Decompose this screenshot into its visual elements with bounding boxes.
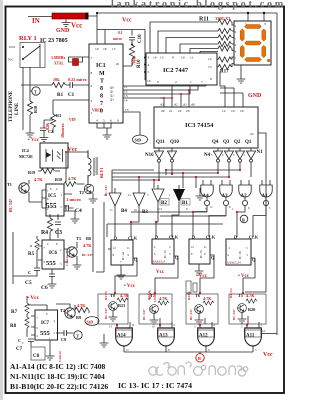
capacitor C9: [64, 330, 66, 336]
svg-text:R8: R8: [10, 324, 17, 329]
svg-text:Q2: Q2: [234, 140, 241, 145]
watermark bottom (sinhala): [149, 362, 248, 376]
IC2 7447: [146, 53, 217, 85]
AND gate A14: [116, 328, 133, 346]
svg-text:IC7: IC7: [41, 321, 50, 326]
svg-text:C7: C7: [16, 347, 23, 352]
svg-text:T8: T8: [110, 293, 115, 298]
svg-text:14: 14: [153, 56, 157, 60]
inverter N4: [213, 151, 222, 162]
svg-text:BC 547: BC 547: [189, 309, 193, 320]
svg-text:N/O: N/O: [9, 45, 16, 49]
ground (ff IC14): [120, 265, 122, 272]
svg-text:3: 3: [226, 150, 228, 154]
svg-text:MC72E: MC72E: [19, 154, 33, 159]
svg-text:T: T: [76, 334, 79, 339]
svg-text:CLK: CLK: [249, 235, 259, 240]
svg-text:20: 20: [161, 109, 165, 113]
wire telephone line left: [21, 67, 52, 130]
svg-text:IC 15: IC 15: [199, 250, 203, 258]
svg-text:T5: T5: [238, 293, 243, 298]
AND gate A12: [198, 328, 215, 346]
svg-text:A3: A3: [159, 103, 164, 107]
svg-text:10: 10: [95, 47, 99, 51]
page border frame: [0, 0, 3, 400]
display digit 8 segments: [240, 25, 270, 62]
inverter N2: [235, 151, 244, 162]
components under IC5: Ra Ca: [47, 218, 52, 232]
svg-text:B4: B4: [121, 209, 127, 214]
red junction dots bus: [153, 179, 155, 181]
wire IC3 pin24 to rail: [245, 133, 266, 292]
svg-text:N/C: N/C: [8, 58, 15, 62]
svg-text:14: 14: [124, 99, 128, 103]
svg-text:3.58MHz: 3.58MHz: [51, 56, 65, 60]
svg-text:R23: R23: [118, 303, 125, 308]
AND gate A3: [220, 185, 232, 197]
svg-text:B2: B2: [161, 201, 167, 206]
svg-text:A13: A13: [159, 334, 168, 339]
svg-text:C4: C4: [75, 208, 82, 214]
svg-text:4.7K: 4.7K: [34, 177, 43, 182]
svg-text:B1: B1: [182, 201, 188, 206]
svg-text:4.7K: 4.7K: [203, 296, 212, 301]
svg-text:B1-B10(IC 20-IC 22):IC 74126: B1-B10(IC 20-IC 22):IC 74126: [10, 382, 108, 391]
svg-text:BC 547: BC 547: [142, 309, 146, 320]
capacitor C8 box: [31, 347, 45, 360]
driver cell T6: [186, 294, 218, 324]
junction dots IC2 left: [144, 57, 146, 59]
svg-text:2: 2: [91, 84, 93, 88]
svg-text:10k: 10k: [53, 77, 60, 82]
svg-text:16: 16: [116, 62, 120, 66]
svg-text:N1-N11(IC 18-IC 19):IC 7404: N1-N11(IC 18-IC 19):IC 7404: [10, 372, 105, 381]
svg-text:9: 9: [172, 56, 174, 60]
svg-text:R18: R18: [33, 106, 38, 113]
svg-text:15: 15: [125, 108, 129, 112]
svg-text:18: 18: [240, 109, 244, 113]
svg-text:T7: T7: [150, 293, 155, 298]
svg-text:0.22 micro: 0.22 micro: [68, 77, 87, 82]
svg-text:C6: C6: [41, 285, 48, 291]
svg-text:1 micro: 1 micro: [65, 255, 69, 266]
svg-text:R6: R6: [86, 236, 91, 241]
svg-text:StD: StD: [135, 138, 142, 143]
svg-text:8: 8: [100, 86, 103, 92]
svg-text:21: 21: [169, 109, 173, 113]
svg-text:TELEPHONE: TELEPHONE: [9, 90, 14, 122]
IC6 555: [42, 240, 64, 269]
svg-text:C5: C5: [25, 280, 32, 286]
capacitor C2: [40, 128, 46, 130]
flip-flop IC14: [111, 240, 133, 265]
svg-text:CLK: CLK: [206, 235, 216, 240]
svg-text:D: D: [234, 235, 237, 240]
svg-text:5,4,9,CL,14: 5,4,9,CL,14: [227, 262, 241, 265]
capacitor C1: [70, 82, 72, 88]
svg-text:7: 7: [201, 80, 203, 84]
svg-text:330E X7: 330E X7: [215, 16, 230, 21]
svg-text:7: 7: [91, 56, 93, 60]
svg-text:C9: C9: [61, 337, 66, 342]
svg-text:B: B: [198, 356, 201, 361]
svg-text:RLY2: RLY2: [187, 291, 191, 300]
svg-text:CLK: CLK: [128, 236, 138, 241]
svg-text:D: D: [155, 235, 158, 240]
node T circle (bottom): [74, 331, 82, 339]
svg-text:16: 16: [147, 79, 151, 83]
inverter N15: [167, 151, 176, 162]
svg-text:T: T: [34, 90, 37, 95]
svg-text:BC 547: BC 547: [104, 308, 108, 319]
ground (gate row): [199, 188, 201, 193]
IC5 555: [46, 184, 64, 216]
node B circle: [240, 215, 248, 223]
svg-text:• Vcc: • Vcc: [27, 295, 40, 301]
buffer B3: [133, 188, 145, 210]
resistor R3 82K: [50, 114, 55, 128]
staircase wires IC2 pins to resistors: [150, 22, 218, 53]
svg-text:BC 547: BC 547: [104, 185, 108, 196]
capacitor C6: [49, 274, 55, 276]
svg-text:Vcc: Vcc: [71, 22, 82, 30]
svg-text:4: 4: [215, 150, 217, 154]
svg-text:C1: C1: [68, 93, 75, 98]
svg-text:IN: IN: [32, 17, 40, 25]
svg-text:555: 555: [46, 260, 57, 267]
resistor R18 (line): [27, 101, 32, 115]
svg-text:11: 11: [190, 56, 194, 60]
svg-text:R5: R5: [28, 252, 35, 257]
svg-text:R7: R7: [11, 310, 18, 315]
svg-text:T3: T3: [76, 236, 81, 241]
svg-text:4: 4: [96, 119, 98, 123]
svg-text:Vcc: Vcc: [263, 352, 273, 358]
svg-text:IC 16: IC 16: [238, 251, 242, 259]
wires display/R17 to IC3 top: [220, 72, 243, 108]
svg-text:R4: R4: [41, 230, 48, 236]
svg-text:4.7K: 4.7K: [83, 243, 92, 248]
right Vcc rail: [276, 13, 278, 335]
horizontal bus rows: [112, 170, 240, 180]
wire regulator out to Vcc rail: [88, 13, 277, 44]
svg-text:8: 8: [100, 94, 103, 100]
svg-text:22: 22: [178, 109, 182, 113]
wires ff row to drivers: [115, 255, 255, 292]
svg-text:VIN: VIN: [69, 118, 76, 122]
svg-text:12: 12: [222, 109, 226, 113]
flip-flop IC13: [152, 239, 174, 264]
svg-text:6: 6: [157, 80, 159, 84]
ground (ff2): [198, 264, 200, 268]
resistor R10: [129, 45, 134, 59]
IC1 MT8870: [89, 44, 123, 123]
ground (IC6): [48, 281, 57, 288]
svg-text:A11: A11: [246, 334, 255, 339]
ground (IC1 bottom): [97, 123, 111, 132]
AND gate A4: [201, 185, 213, 197]
svg-text:24: 24: [250, 132, 254, 136]
svg-text:4.7K: 4.7K: [120, 293, 129, 298]
svg-text:IC1: IC1: [96, 63, 106, 69]
svg-text:T6: T6: [195, 293, 200, 298]
svg-text:IC 13- IC 17 : IC 7474: IC 13- IC 17 : IC 7474: [118, 381, 192, 390]
svg-text:5: 5: [103, 119, 105, 123]
svg-text:CLK: CLK: [169, 235, 179, 240]
AND gate A1: [260, 185, 272, 197]
svg-text:Vcc: Vcc: [156, 270, 165, 275]
svg-text:7: 7: [100, 101, 103, 107]
svg-text:8: 8: [91, 71, 93, 75]
svg-text:T2: T2: [79, 190, 84, 195]
svg-text:5,4,9,CL,4: 5,4,9,CL,4: [153, 261, 166, 264]
svg-text:IC5: IC5: [48, 194, 57, 199]
svg-text:B3: B3: [142, 210, 148, 215]
bottom bus: [124, 351, 253, 353]
svg-text:• Vcc: • Vcc: [28, 138, 40, 143]
svg-text:0.1: 0.1: [118, 31, 123, 35]
svg-text:C: C: [18, 338, 21, 343]
svg-text:StD: StD: [87, 320, 94, 325]
wire 0.1uF box: [105, 30, 145, 58]
AND gate A11: [245, 328, 262, 346]
optocoupler IC4 MC72E: [40, 143, 68, 168]
svg-text:GND: GND: [248, 93, 262, 99]
ground (IC7): [49, 340, 51, 354]
relay RLY1 contacts: [20, 43, 45, 68]
svg-text:A1-A14 (IC 8-IC 12) :IC 7408: A1-A14 (IC 8-IC 12) :IC 7408: [10, 362, 105, 371]
buffer B1: [173, 189, 185, 202]
wire IN lead: [28, 16, 52, 18]
relay RLY1 coil: [88, 150, 94, 182]
svg-text:N1: N1: [257, 150, 264, 155]
buffer B2: [152, 185, 164, 210]
driver cell T5/R20: [229, 294, 266, 324]
svg-text:XTAL: XTAL: [54, 62, 64, 66]
svg-text:R3: R3: [56, 113, 61, 118]
svg-text:Q10: Q10: [170, 140, 179, 145]
bus IC1 Q outputs to IC2/IC3: [123, 85, 206, 98]
junction dot: [96, 12, 98, 14]
svg-text:IC 23 7805: IC 23 7805: [40, 38, 68, 44]
svg-text:Q11: Q11: [156, 140, 165, 145]
svg-text:M: M: [99, 71, 105, 77]
svg-text:R18: R18: [55, 177, 62, 182]
svg-text:Q3: Q3: [110, 98, 114, 102]
svg-text:700K: 700K: [133, 57, 137, 65]
svg-text:555: 555: [46, 202, 57, 210]
svg-text:RLY 1: RLY 1: [19, 35, 37, 42]
svg-text:C2: C2: [48, 129, 53, 134]
svg-text:2: 2: [175, 80, 177, 84]
ground (A14): [103, 334, 105, 340]
svg-text:555: 555: [40, 330, 51, 337]
driver cell T8/R23: [98, 294, 128, 324]
svg-text:R9: R9: [76, 315, 81, 320]
svg-text:Q3: Q3: [223, 140, 230, 145]
svg-text:BC 547: BC 547: [8, 199, 13, 212]
svg-text:R19: R19: [28, 170, 35, 175]
ground (regulator): [62, 20, 71, 27]
node StD oval (bottom): [85, 317, 99, 326]
svg-text:4: 4: [148, 63, 150, 67]
regulator IC23 7805 body: [52, 13, 88, 19]
svg-text:A4: A4: [203, 194, 210, 199]
crystal X1: [73, 59, 79, 66]
svg-text:R10: R10: [137, 59, 142, 68]
driver cell T7: [139, 294, 172, 324]
ground (tel line): [26, 130, 35, 137]
svg-text:A2: A2: [173, 103, 178, 107]
svg-text:IC3 74154: IC3 74154: [185, 122, 214, 129]
svg-text:Vcc: Vcc: [122, 18, 132, 24]
svg-text:VREF: VREF: [92, 109, 103, 113]
svg-text:6: 6: [110, 119, 112, 123]
svg-text:5: 5: [148, 70, 150, 74]
buffer B4: [109, 188, 121, 210]
inverter N3: [224, 151, 233, 162]
svg-text:IC4: IC4: [22, 148, 30, 153]
svg-text:f: f: [235, 56, 236, 60]
svg-text:A1: A1: [182, 103, 187, 107]
wires inverter outputs to bus: [159, 162, 251, 180]
flip-flop IC15: [189, 239, 210, 264]
svg-text:11: 11: [124, 85, 128, 89]
svg-text:23: 23: [186, 109, 190, 113]
svg-text:• Vcc: • Vcc: [124, 284, 136, 289]
AND gate A13: [158, 328, 175, 346]
7-segment display: [234, 21, 271, 65]
display top pins: [248, 13, 264, 21]
resistor bank a-g: [218, 19, 232, 24]
capacitor C7: [28, 339, 34, 341]
svg-text:Q1: Q1: [245, 140, 252, 145]
svg-text:GND: GND: [56, 28, 70, 34]
svg-text:1: 1: [190, 80, 192, 84]
svg-text:R17: R17: [220, 70, 229, 75]
transistor T1: [19, 183, 29, 193]
svg-text:IC 14: IC 14: [121, 252, 125, 260]
svg-text:3: 3: [148, 56, 150, 60]
capacitor C10: [129, 38, 135, 40]
ground (display): [240, 65, 242, 76]
ground (C2): [40, 135, 49, 142]
wire IC1 pin15 to StD: [123, 112, 140, 135]
svg-text:4.7K: 4.7K: [68, 176, 77, 181]
svg-text:13: 13: [208, 65, 212, 69]
svg-text:R11: R11: [199, 17, 209, 23]
svg-text:A14: A14: [117, 334, 126, 339]
svg-text:10: 10: [181, 56, 185, 60]
node T circle: [32, 87, 40, 95]
svg-text:N4: N4: [204, 153, 211, 158]
svg-text:A12: A12: [199, 334, 208, 339]
svg-text:BC 547: BC 547: [82, 253, 93, 257]
IC7 555: [35, 310, 58, 340]
svg-text:LINE: LINE: [15, 102, 20, 115]
svg-text:T1: T1: [7, 182, 12, 187]
flip-flop IC16: [226, 239, 251, 265]
node B circle (bottom): [199, 352, 201, 354]
svg-text:18: 18: [103, 47, 107, 51]
svg-text:1: 1: [248, 150, 250, 154]
svg-text:C8: C8: [33, 354, 40, 359]
svg-text:D: D: [192, 235, 195, 240]
AND gate A2: [239, 185, 251, 197]
svg-text:C10: C10: [138, 34, 143, 43]
transistor T2: [84, 184, 94, 194]
inverter N1: [246, 151, 255, 162]
svg-text:4.7K: 4.7K: [159, 296, 168, 301]
svg-text:T: T: [100, 79, 104, 85]
svg-text:9: 9: [117, 119, 119, 123]
node StD oval: [133, 135, 148, 144]
inverter N16: [154, 151, 163, 162]
svg-text:17: 17: [112, 47, 116, 51]
svg-text:12: 12: [208, 57, 212, 61]
svg-text:2: 2: [237, 150, 239, 154]
svg-text:19: 19: [231, 109, 235, 113]
svg-text:C: C: [22, 342, 24, 345]
svg-text:A1: A1: [262, 194, 269, 199]
svg-text:8: 8: [210, 77, 212, 81]
svg-text:Q4: Q4: [212, 140, 219, 145]
svg-text:3: 3: [91, 99, 93, 103]
svg-text:IC6: IC6: [49, 251, 58, 256]
svg-text:A3: A3: [222, 194, 229, 199]
svg-text:lankatronic.blogspot.com: lankatronic.blogspot.com: [111, 0, 286, 10]
svg-text:13: 13: [124, 94, 128, 98]
svg-text:1 micro: 1 micro: [66, 197, 82, 202]
svg-text:N16: N16: [145, 153, 154, 158]
svg-text:C3: C3: [55, 230, 62, 236]
resistor R1: [52, 82, 66, 87]
ground (IC5 right): [64, 211, 75, 216]
svg-text:4.7K: 4.7K: [246, 293, 255, 298]
svg-text:RL,V2: RL,V2: [229, 288, 233, 298]
svg-text:BC 547: BC 547: [232, 309, 236, 320]
svg-text:10micro: 10micro: [60, 123, 65, 138]
svg-text:R20: R20: [248, 307, 255, 312]
svg-text:12: 12: [124, 90, 128, 94]
svg-text:RLY5: RLY5: [104, 291, 108, 300]
svg-text:D: D: [114, 236, 117, 241]
svg-text:A2: A2: [241, 194, 248, 199]
svg-text:R1: R1: [57, 93, 64, 98]
svg-text:IC2 7447: IC2 7447: [163, 67, 189, 74]
svg-text:RLY1: RLY1: [99, 167, 104, 178]
svg-text:A0: A0: [190, 103, 195, 107]
svg-text:IC 13: IC 13: [163, 250, 167, 258]
svg-text:micro: micro: [113, 37, 122, 41]
wires gates to FF row: [115, 206, 266, 237]
IC3 74154: [154, 107, 258, 148]
svg-text:1 micro: 1 micro: [58, 351, 62, 362]
svg-text:B: B: [242, 218, 245, 223]
svg-text:C: C: [28, 270, 31, 275]
svg-text:15: 15: [160, 56, 164, 60]
